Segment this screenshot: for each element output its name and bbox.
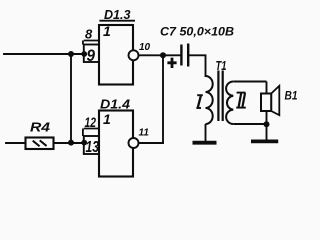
- node A junction dot: [68, 51, 74, 57]
- output bubble pin 11: [129, 138, 139, 148]
- svg-text:1: 1: [103, 111, 111, 127]
- ground under speaker: [251, 139, 278, 143]
- svg-text:9: 9: [87, 46, 96, 65]
- svg-text:10: 10: [139, 42, 151, 53]
- node speaker bottom: [264, 121, 270, 127]
- wire secondary bottom to speaker: [233, 123, 266, 125]
- resistor R4: [26, 138, 54, 150]
- cone: [271, 86, 279, 115]
- pin 9 bracket box: [84, 45, 99, 63]
- svg-text:R4: R4: [30, 120, 51, 135]
- bottom stub: [266, 111, 268, 140]
- svg-text:D1.3: D1.3: [104, 7, 131, 22]
- pin 8 stub: [83, 41, 99, 45]
- transformer T1: [206, 71, 267, 142]
- pin 12 stub: [83, 129, 99, 137]
- svg-text:C7 50,0×10В: C7 50,0×10В: [160, 25, 234, 39]
- svg-text:D1.4: D1.4: [100, 97, 131, 112]
- svg-text:1: 1: [103, 23, 111, 39]
- svg-text:13: 13: [86, 139, 100, 156]
- wire vertical tie: [70, 54, 72, 143]
- pin 13 bracket box: [84, 136, 99, 154]
- body: [261, 94, 271, 112]
- gate U D1.4: [83, 111, 139, 177]
- wire 11 up to node: [162, 55, 164, 143]
- core lines: [218, 71, 222, 122]
- label winding II: [236, 93, 246, 108]
- node at pin9 bracket: [81, 51, 87, 57]
- svg-text:12: 12: [85, 114, 97, 130]
- plus sign of C7: [167, 58, 176, 68]
- wire cap to T1: [189, 55, 205, 76]
- wire R4 left: [6, 142, 26, 144]
- capacitor C7 plates: [167, 44, 188, 69]
- output bubble pin 10: [129, 50, 139, 60]
- gate U D1.3: [83, 25, 139, 85]
- wire secondary top to speaker: [233, 82, 266, 94]
- primary bottom wire: [205, 124, 207, 141]
- wire output 11: [138, 142, 163, 144]
- primary winding I: [206, 76, 213, 124]
- svg-text:B1: B1: [285, 91, 298, 103]
- svg-text:11: 11: [139, 128, 150, 139]
- secondary winding II: [226, 82, 233, 125]
- ground under primary: [193, 141, 217, 145]
- node C output join: [160, 52, 166, 58]
- svg-text:T1: T1: [216, 58, 227, 73]
- svg-text:8: 8: [85, 27, 93, 42]
- label winding I: [196, 95, 202, 108]
- speaker B1: [261, 86, 279, 140]
- underline of D1.3: [99, 20, 135, 22]
- wire output 10: [138, 54, 181, 56]
- node B junction dot: [68, 140, 74, 146]
- wire input top: [4, 53, 84, 55]
- node at pin13 bracket: [81, 140, 87, 146]
- wire R4 to gates: [54, 142, 84, 144]
